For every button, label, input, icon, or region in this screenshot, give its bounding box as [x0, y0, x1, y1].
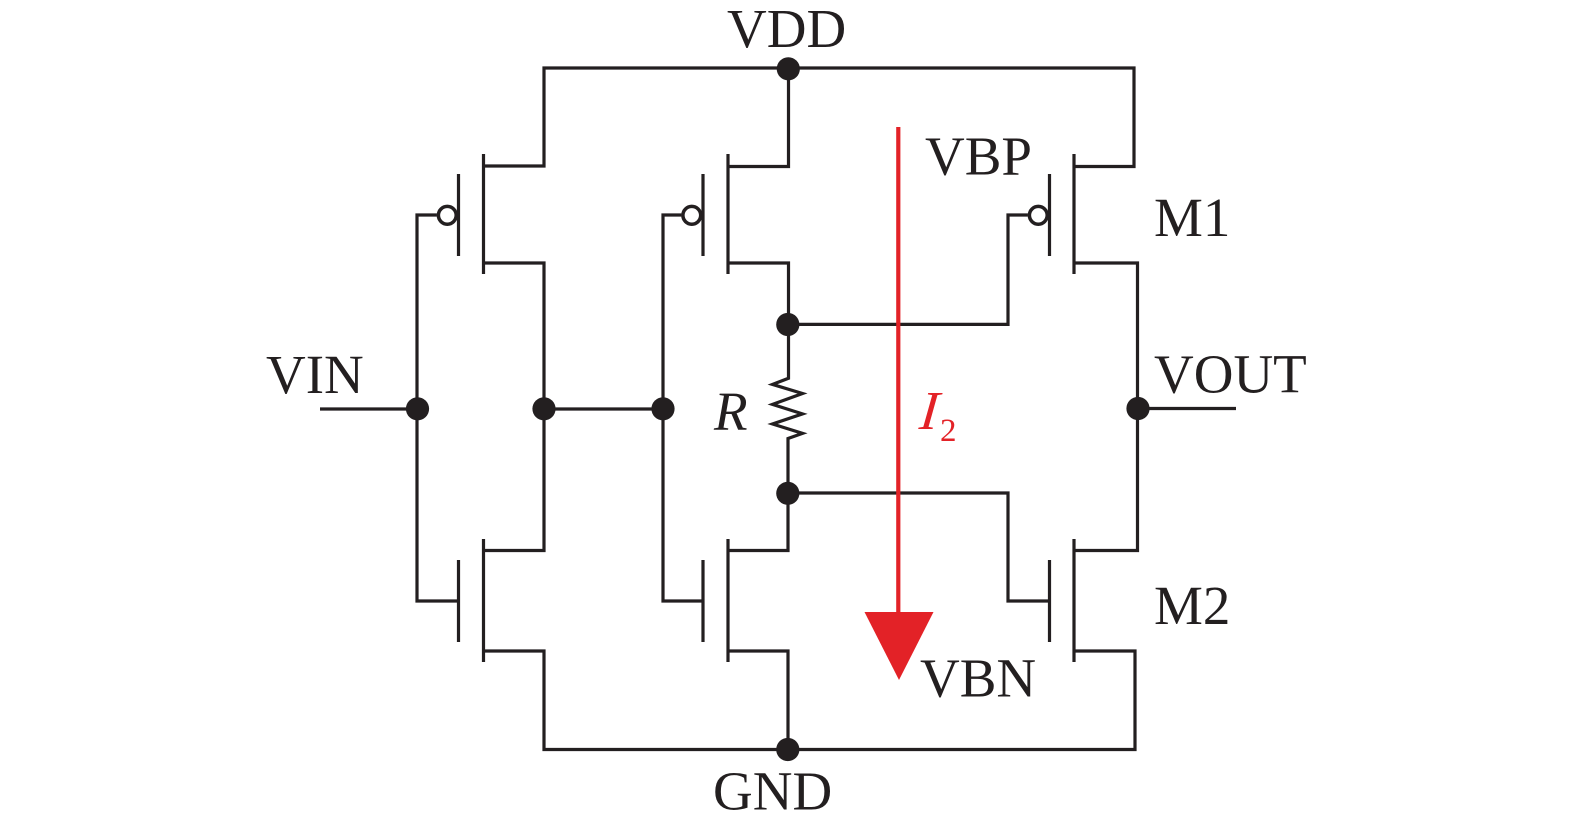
svg-text:VBP: VBP	[925, 126, 1032, 187]
svg-text:R: R	[713, 381, 748, 442]
svg-text:VOUT: VOUT	[1154, 344, 1307, 405]
svg-text:VDD: VDD	[727, 0, 846, 59]
svg-text:GND: GND	[713, 761, 832, 822]
svg-text:2: 2	[940, 413, 957, 449]
svg-text:VBN: VBN	[920, 648, 1036, 709]
svg-text:VIN: VIN	[266, 344, 364, 405]
svg-text:M2: M2	[1154, 575, 1230, 636]
svg-text:M1: M1	[1154, 187, 1230, 248]
